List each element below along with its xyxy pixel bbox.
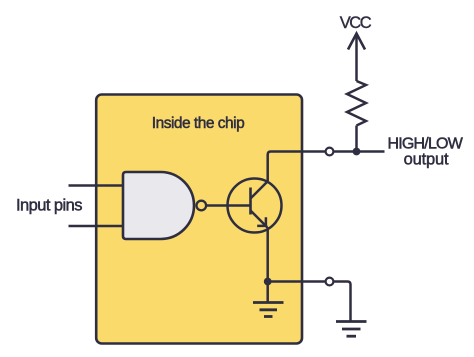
transistor Q1 emitter arrowhead: [257, 217, 266, 226]
transistor Q1 circle: [228, 179, 282, 233]
input pin wire A (top): [69, 184, 125, 187]
transistor Q1 base bar: [249, 188, 252, 215]
NAND gate inversion bubble: [197, 201, 207, 211]
input pin wire B (bottom): [69, 225, 125, 228]
emitter junction dot: [264, 278, 272, 286]
ground pin open circle: [326, 278, 334, 286]
svg-text:Inside the chip: Inside the chip: [152, 115, 244, 132]
wire: junction to ground pin: [268, 280, 326, 283]
ground symbol inside chip: bar 3: [264, 315, 273, 318]
ground symbol inside chip: bar 2: [260, 308, 278, 311]
svg-text:Input pins: Input pins: [16, 197, 82, 215]
transistor Q1 collector stroke: [251, 181, 268, 198]
resistor R1 upper lead: [355, 35, 358, 82]
svg-text:output: output: [404, 151, 449, 169]
resistor R1 lower lead: [355, 126, 358, 152]
NAND gate U1 body: [123, 172, 194, 239]
collector wire up and right to output node: [268, 152, 385, 182]
chip body (Inside the chip box): [96, 95, 302, 344]
resistor R1 zigzag: [347, 81, 366, 126]
emitter wire down to junction: [266, 227, 269, 303]
ground symbol external: bar 2: [342, 328, 361, 331]
wire: bubble to transistor base: [206, 204, 250, 207]
ground symbol inside chip: bar 1: [253, 301, 284, 304]
transistor Q1 emitter stroke: [251, 211, 268, 228]
VCC arrowhead: [348, 34, 365, 50]
ground symbol external: bar 3: [347, 335, 357, 338]
svg-text:VCC: VCC: [340, 14, 372, 32]
output pin open circle: [326, 148, 334, 156]
junction dot at resistor/output: [353, 148, 361, 156]
wire: open circle right and down to external ground: [334, 282, 351, 322]
ground symbol external: bar 1: [336, 320, 367, 323]
